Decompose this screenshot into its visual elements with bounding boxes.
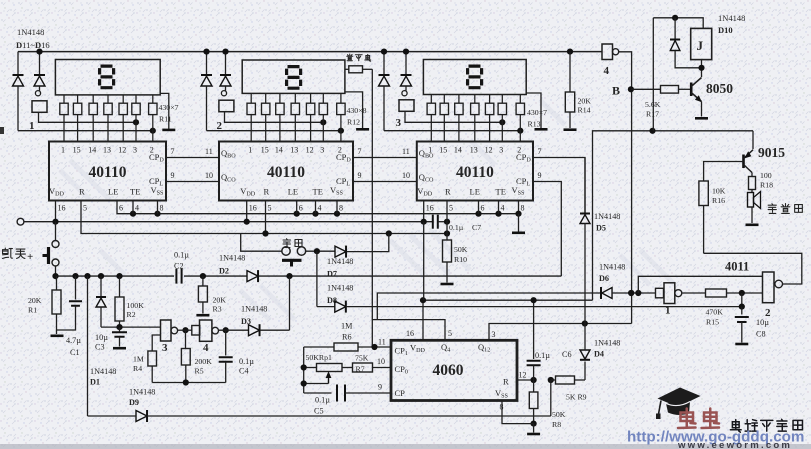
svg-text:0.1µ: 0.1µ — [174, 251, 189, 260]
svg-text:+: + — [27, 251, 33, 263]
svg-text:1N4148: 1N4148 — [327, 257, 353, 266]
resistor R14 20K — [567, 49, 573, 55]
inverter gate 4 (top) — [602, 44, 613, 60]
svg-text:5: 5 — [449, 204, 453, 213]
diode D3 1N4148 — [249, 325, 260, 336]
inverter gate 1 input square — [656, 288, 664, 298]
main set rail — [56, 275, 175, 277]
reset button net: rail tap down — [241, 234, 282, 252]
diode D9 1N4148 on bottom wire — [136, 411, 147, 422]
wire driver 1 to segment column — [39, 112, 137, 122]
resistor network 430×7 (430 ohm) — [63, 95, 65, 103]
svg-text:D3: D3 — [241, 317, 251, 326]
bus D8 to gate2 — [317, 306, 335, 308]
resistor R6 1M — [304, 346, 334, 348]
svg-text:R11: R11 — [159, 115, 172, 124]
8050 emitter to ground — [701, 102, 703, 117]
svg-text:1N4148: 1N4148 — [129, 388, 155, 397]
svg-text:3: 3 — [320, 146, 324, 155]
transistor Q1 8050 NPN — [690, 83, 693, 97]
resistor R3 20K pulldown — [202, 276, 204, 286]
svg-text:12: 12 — [118, 146, 126, 155]
display DS2 7-segment glyph — [285, 65, 302, 90]
resistor R7 75K — [353, 363, 373, 372]
svg-text:LE: LE — [288, 187, 298, 197]
diode D4 1N4148 vertical — [580, 350, 590, 359]
svg-text:8: 8 — [339, 204, 343, 213]
svg-text:10: 10 — [377, 357, 385, 366]
resistor R5 200K — [185, 330, 187, 348]
display DS3 7-segment glyph — [466, 65, 483, 90]
svg-text:470K: 470K — [706, 308, 724, 317]
resistor R8 50K — [533, 380, 535, 392]
svg-text:10µ: 10µ — [756, 318, 769, 327]
buzzer (fengmingqi) — [751, 190, 753, 193]
svg-text:9: 9 — [358, 171, 362, 180]
IC U5 4060 box — [391, 340, 517, 400]
svg-text:C1: C1 — [70, 348, 80, 357]
svg-text:LE: LE — [108, 187, 118, 197]
svg-text:50K: 50K — [454, 245, 468, 254]
wire CP_L U1 to Q_CO U2 (pins 9-10) — [166, 181, 219, 183]
capacitor C4 0.1u — [225, 330, 227, 355]
node on +V rail — [222, 49, 228, 55]
resistor R16 10K — [699, 181, 708, 206]
svg-text:9: 9 — [378, 383, 382, 392]
reset button (fuwei) — [282, 247, 290, 255]
svg-text:R: R — [503, 377, 509, 387]
resistor R15 470K — [706, 289, 727, 297]
relay J — [691, 28, 712, 59]
left edge scan mark — [0, 127, 4, 134]
svg-text:12: 12 — [306, 146, 314, 155]
svg-text:1N4148: 1N4148 — [219, 254, 245, 263]
resistor R10 50K — [443, 240, 452, 262]
resistor R17 5.6K — [631, 88, 661, 90]
inverter gate 4 — [200, 320, 212, 341]
svg-text:7: 7 — [358, 147, 362, 156]
svg-text:D2: D2 — [219, 267, 229, 276]
label sheding+ (SET+) — [3, 248, 13, 258]
svg-text:R16: R16 — [712, 196, 725, 205]
svg-text:R18: R18 — [760, 181, 773, 190]
svg-text:14: 14 — [275, 146, 283, 155]
svg-text:1: 1 — [248, 146, 252, 155]
svg-text:C7: C7 — [472, 223, 481, 232]
svg-text:D7: D7 — [327, 270, 337, 279]
svg-text:LE: LE — [470, 187, 480, 197]
svg-text:16: 16 — [249, 204, 257, 213]
gate 3 lower input from R4 — [152, 335, 160, 351]
relay bottom to 8050 collector — [701, 60, 703, 77]
vertical reset-node to D8 bus — [316, 251, 318, 306]
watermark graduation cap — [656, 388, 701, 420]
svg-text:R6: R6 — [342, 333, 352, 342]
diode D (left column) digit 2 — [206, 52, 208, 75]
node on +V rail — [36, 49, 42, 55]
rail VDD (pin 16s) — [24, 221, 432, 223]
svg-text:4: 4 — [604, 65, 610, 77]
svg-text:R1: R1 — [28, 306, 37, 315]
svg-text:C8: C8 — [756, 330, 766, 339]
svg-text:4: 4 — [203, 342, 209, 354]
svg-text:www.eeworm.com: www.eeworm.com — [677, 440, 792, 449]
svg-text:R4: R4 — [133, 364, 142, 373]
+V column down to 9015 emitter rail — [652, 18, 654, 131]
svg-text:40110: 40110 — [267, 164, 305, 181]
svg-text:C2: C2 — [174, 262, 184, 271]
svg-text:10: 10 — [205, 171, 213, 180]
svg-text:430×8: 430×8 — [347, 106, 367, 115]
node on +V rail — [381, 49, 387, 55]
svg-text:11: 11 — [205, 147, 213, 156]
svg-text:1N4148: 1N4148 — [599, 263, 625, 272]
gate 4 output node and D3 — [223, 327, 229, 333]
capacitor C7 0.1u — [432, 215, 434, 229]
Rp1 wiper arrow — [328, 374, 330, 384]
svg-text:CP: CP — [395, 388, 406, 398]
wire emitter rail to 9015 — [752, 131, 754, 149]
wire left diode column digit 1 — [18, 130, 153, 132]
wire driver 3 to segment column — [405, 111, 502, 122]
4060 R pin 12 wire — [517, 379, 534, 381]
resistor R9 5K — [556, 376, 575, 384]
bus VDD to right — [423, 299, 593, 301]
svg-text:1M: 1M — [133, 355, 144, 364]
D5 column — [584, 158, 586, 214]
diode D10 1N4148 across relay — [674, 18, 676, 39]
svg-text:1N4148: 1N4148 — [327, 284, 353, 293]
bottom wire up to R12 node — [550, 380, 552, 416]
IC U3 40110 box — [417, 142, 533, 201]
svg-text:12: 12 — [519, 371, 527, 380]
resistor R18 100 — [751, 173, 753, 177]
svg-text:TE: TE — [130, 187, 140, 197]
svg-text:4011: 4011 — [725, 260, 749, 274]
bottom scan edge strip — [0, 444, 811, 449]
9015 base wire to R16 — [704, 162, 744, 182]
svg-text:TE: TE — [496, 187, 506, 197]
IC U1 40110 box — [49, 142, 166, 201]
svg-text:1N4148: 1N4148 — [90, 367, 116, 376]
resistor R2 100K — [116, 273, 122, 279]
svg-text:D11~D16: D11~D16 — [16, 40, 50, 50]
wire CP_D U3 pin 7 to D5 column — [533, 158, 585, 214]
svg-text:C6: C6 — [562, 350, 572, 359]
diode D8 1N4148 — [335, 301, 346, 312]
tie wire R4-R5-C4 — [152, 382, 226, 384]
ground of VSS tie rail — [515, 211, 521, 217]
svg-text:R2: R2 — [127, 310, 136, 319]
svg-text:6: 6 — [299, 204, 303, 213]
svg-text:C5: C5 — [314, 407, 324, 416]
4060 pin16 wire up to VDD bus — [422, 300, 424, 339]
svg-text:5: 5 — [268, 204, 272, 213]
svg-text:R7: R7 — [356, 365, 365, 374]
svg-text:R14: R14 — [578, 106, 591, 115]
watermark dianzi xiazaizhan (black CJK) — [730, 420, 741, 433]
svg-text:16: 16 — [426, 204, 434, 213]
svg-text:13: 13 — [290, 146, 298, 155]
svg-text:11: 11 — [402, 147, 410, 156]
diode D (left column) digit 1 — [17, 52, 19, 75]
rail R reset (pin 5s) — [81, 201, 447, 234]
svg-text:8: 8 — [521, 204, 525, 213]
svg-text:1M: 1M — [341, 322, 353, 331]
svg-text:5: 5 — [448, 329, 452, 338]
gate 2 (NAND as inverter) — [763, 272, 775, 303]
svg-text:5K R9: 5K R9 — [566, 393, 587, 402]
node B — [628, 86, 634, 92]
wire R16 to gate2 output — [704, 253, 802, 284]
vertical to D9 — [84, 273, 90, 279]
pin5 wire of 4060 — [372, 320, 445, 340]
svg-text:1: 1 — [61, 146, 65, 155]
C8 node wire — [741, 293, 743, 307]
diode D7 1N4148 — [335, 246, 346, 257]
svg-text:R: R — [264, 187, 270, 197]
svg-text:3: 3 — [499, 146, 503, 155]
svg-text:7: 7 — [538, 147, 542, 156]
svg-text:R15: R15 — [706, 318, 719, 327]
svg-text:C3: C3 — [95, 343, 105, 352]
svg-text:6: 6 — [119, 204, 123, 213]
label fengmingqi (buzzer) — [768, 204, 776, 214]
svg-text:40110: 40110 — [89, 164, 127, 181]
svg-text:3: 3 — [162, 342, 168, 354]
svg-text:15: 15 — [73, 146, 81, 155]
wire driver 2 to segment column — [225, 112, 324, 123]
svg-text:13: 13 — [103, 146, 111, 155]
svg-text:J: J — [697, 38, 704, 53]
watermark chongchong (red bugs) — [678, 409, 696, 429]
diode D (right column) digit 2 — [225, 52, 227, 75]
svg-text:10µ: 10µ — [95, 333, 108, 342]
svg-text:3: 3 — [133, 146, 137, 155]
svg-text:15: 15 — [261, 146, 269, 155]
svg-text:20K: 20K — [213, 296, 227, 305]
svg-text:1N4148: 1N4148 — [594, 339, 620, 348]
capacitor C5 0.1u — [304, 392, 332, 394]
svg-text:3: 3 — [492, 330, 496, 339]
display DS1 box — [55, 60, 160, 95]
svg-text:75K: 75K — [355, 354, 369, 363]
long vertical from DP resistor — [371, 69, 373, 347]
capacitor C8 10u — [741, 307, 743, 315]
display DS1 7-segment glyph — [98, 65, 115, 90]
svg-text:1N4148: 1N4148 — [718, 13, 745, 23]
svg-text:100K: 100K — [127, 301, 145, 310]
wire CP_D U1 to Q_BO U2 (pins 7-11) — [166, 157, 219, 159]
gate 3 output node — [182, 327, 188, 333]
svg-text:40110: 40110 — [456, 164, 494, 181]
inverter gate 4 input square — [192, 326, 200, 336]
svg-text:1: 1 — [665, 305, 671, 317]
svg-text:4060: 4060 — [433, 362, 464, 379]
svg-text:9: 9 — [538, 171, 542, 180]
gate2 upper input wire — [638, 276, 762, 293]
svg-text:7: 7 — [171, 147, 175, 156]
diode D (left column) digit 3 — [383, 52, 385, 75]
left input terminal — [17, 218, 24, 225]
svg-text:4: 4 — [501, 204, 505, 213]
svg-text:14: 14 — [454, 146, 462, 155]
capacitor C3 10u — [119, 327, 121, 331]
svg-text:R: R — [79, 187, 85, 197]
display 1 common ground — [160, 93, 169, 128]
svg-text:4: 4 — [135, 204, 139, 213]
svg-text:5: 5 — [83, 204, 87, 213]
wire gate1 out to R15 — [682, 292, 705, 294]
IC3 pin5 column to R10 — [446, 201, 448, 241]
wire CP_D U2 to Q_BO U3 (pins 7-11) — [353, 157, 417, 159]
svg-text:C4: C4 — [239, 367, 249, 376]
inverter gate 3 — [161, 320, 172, 341]
wire CP_L U3 pin 9 to set rail — [533, 182, 561, 277]
4060 VSS pin 8 wire — [502, 401, 534, 424]
decimal point resistor — [345, 68, 349, 70]
svg-text:1N4148: 1N4148 — [594, 212, 620, 221]
svg-text:D6: D6 — [599, 274, 609, 283]
label xiaoshudian text — [347, 54, 353, 61]
svg-text:13: 13 — [470, 146, 478, 155]
svg-text:50K: 50K — [552, 410, 566, 419]
transistor Q2 9015 PNP — [742, 155, 745, 169]
svg-text:100: 100 — [760, 171, 772, 180]
svg-text:B: B — [612, 84, 620, 98]
svg-text:14: 14 — [88, 146, 96, 155]
digit driver 1 — [35, 91, 40, 96]
svg-text:4.7µ: 4.7µ — [66, 336, 81, 345]
resistor R4 1M — [148, 351, 157, 366]
4060 pin 3 wire to B column — [489, 324, 632, 340]
svg-text:0.1µ: 0.1µ — [449, 223, 464, 232]
capacitor C1 4.7u — [72, 273, 78, 279]
svg-text:200K: 200K — [195, 357, 213, 366]
VDD riser to top-right — [593, 131, 754, 300]
svg-text:R3: R3 — [213, 305, 222, 314]
display 3 common ground — [526, 93, 541, 128]
potentiometer Rp1 50K — [304, 367, 317, 369]
inverter gate 1 — [664, 283, 675, 304]
diode D1 1N4148 — [98, 273, 104, 279]
resistor network 430×7 (430 ohm) — [430, 95, 432, 104]
svg-text:10K: 10K — [712, 187, 726, 196]
svg-text:R: R — [445, 187, 451, 197]
capacitor C6 0.1u — [533, 300, 535, 359]
svg-text:1N4148: 1N4148 — [17, 27, 44, 37]
diode D (right column) digit 3 — [405, 52, 407, 75]
svg-text:D4: D4 — [594, 350, 604, 359]
svg-text:0.1µ: 0.1µ — [315, 396, 330, 405]
svg-text:16: 16 — [406, 329, 414, 338]
svg-text:D8: D8 — [327, 296, 337, 305]
svg-text:12: 12 — [485, 146, 493, 155]
svg-text:3: 3 — [396, 117, 402, 129]
display DS3 box — [423, 60, 526, 95]
wire reset to D7 — [306, 250, 335, 252]
svg-text:R13: R13 — [528, 120, 541, 129]
svg-text:R12: R12 — [347, 118, 360, 127]
svg-text:9015: 9015 — [758, 145, 785, 160]
svg-text:1N4148: 1N4148 — [241, 305, 267, 314]
node on +V rail — [203, 49, 209, 55]
svg-text:D9: D9 — [129, 398, 139, 407]
digit driver 3 — [402, 91, 407, 96]
svg-text:15: 15 — [439, 146, 447, 155]
switch SET+ (sheding+) — [55, 222, 57, 241]
display DS2 box — [242, 60, 345, 93]
wire main top rail +V — [18, 51, 602, 53]
svg-text:9: 9 — [171, 171, 175, 180]
svg-text:11: 11 — [378, 338, 386, 347]
svg-text:R5: R5 — [195, 367, 204, 376]
svg-text:10: 10 — [402, 171, 410, 180]
capacitor C2 0.1u (series in rail) — [175, 269, 177, 284]
svg-text:50KRp1: 50KRp1 — [306, 353, 333, 362]
svg-text:D5: D5 — [596, 224, 606, 233]
digit driver 2 — [221, 91, 226, 96]
resistor R1 20K — [56, 276, 58, 290]
bus Q4 to gate1/D6 corner — [377, 293, 601, 320]
wire left diode column digit 2 — [207, 130, 341, 132]
svg-text:6: 6 — [481, 204, 485, 213]
diode D6 1N4148 pointing left — [600, 287, 602, 299]
gate4 output to B column — [619, 52, 632, 324]
svg-text:8050: 8050 — [706, 81, 733, 96]
svg-text:4: 4 — [318, 204, 322, 213]
wire CP_L U2 to Q_CO U3 (pins 9-10) — [353, 181, 417, 183]
svg-text:0.1µ: 0.1µ — [239, 357, 254, 366]
svg-text:430×7: 430×7 — [527, 108, 547, 117]
svg-text:0.1µ: 0.1µ — [535, 351, 550, 360]
svg-text:8: 8 — [160, 204, 164, 213]
svg-text:R10: R10 — [454, 255, 467, 264]
relay +V rail — [653, 18, 703, 29]
svg-text:R17: R17 — [646, 110, 659, 119]
resistor network 430×8 (430 ohm) — [250, 93, 252, 103]
svg-text:20K: 20K — [28, 296, 42, 305]
rail LE/TE/VSS tie (to ground) — [117, 201, 519, 214]
diode D2 1N4148 (series in rail) — [247, 271, 258, 282]
svg-text:TE: TE — [313, 187, 323, 197]
svg-text:D10: D10 — [718, 25, 733, 35]
wire D1/R2 to gate 3 input — [101, 326, 161, 328]
display 2 common ground — [345, 92, 363, 128]
label fuwei (reset) — [283, 239, 291, 248]
svg-text:20K: 20K — [578, 97, 592, 106]
svg-text:D1: D1 — [90, 378, 100, 387]
IC U2 40110 box — [219, 142, 353, 201]
wire left diode column digit 3 — [384, 130, 520, 132]
svg-text:16: 16 — [58, 204, 66, 213]
node on +V rail — [403, 49, 409, 55]
svg-text:R8: R8 — [552, 420, 561, 429]
left vertical of osc RC — [303, 347, 305, 393]
diode D (right column) digit 1 — [39, 52, 41, 75]
